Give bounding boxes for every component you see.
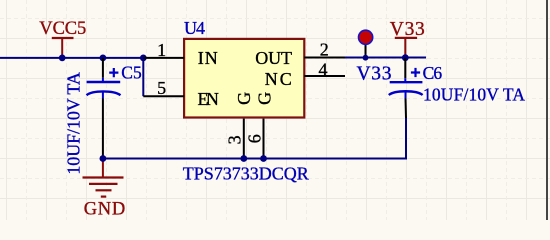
- node junction pin6/bus: [260, 155, 267, 162]
- pin 1: [143, 57, 184, 59]
- svg-text:10UF/10V TA: 10UF/10V TA: [64, 72, 84, 175]
- svg-text:TPS73733DCQR: TPS73733DCQR: [183, 163, 309, 183]
- node junction VCC5/wire: [59, 55, 66, 62]
- svg-text:C6: C6: [423, 63, 443, 83]
- svg-text:C5: C5: [121, 63, 142, 83]
- svg-text:3: 3: [225, 135, 245, 144]
- svg-text:1: 1: [157, 40, 166, 60]
- node junction pin3/bus: [240, 155, 247, 162]
- svg-text:G: G: [255, 92, 275, 105]
- capacitor C5: [87, 58, 142, 159]
- svg-text:V33: V33: [390, 19, 425, 40]
- pin 2: [304, 57, 345, 59]
- wire net V33 horizontal: [345, 57, 426, 59]
- regulator IC U4 body: [184, 39, 304, 118]
- svg-text:IN: IN: [198, 48, 218, 68]
- svg-text:V33: V33: [357, 63, 392, 84]
- svg-text:GND: GND: [84, 200, 126, 220]
- svg-text:EN: EN: [198, 89, 219, 109]
- test point marker (red dot): [359, 30, 373, 56]
- node junction V33/C6/wire: [402, 54, 409, 61]
- node junction red dot/wire: [363, 55, 369, 61]
- svg-text:6: 6: [244, 134, 264, 143]
- svg-text:OUT: OUT: [255, 48, 292, 68]
- pin 3: [243, 119, 245, 159]
- svg-text:5: 5: [157, 78, 166, 98]
- pin 4: [304, 75, 345, 77]
- svg-text:G: G: [234, 92, 254, 105]
- node junction C5/wire: [100, 55, 107, 62]
- pin 5: [143, 95, 184, 97]
- svg-text:VCC5: VCC5: [39, 19, 86, 39]
- pin 6: [263, 119, 265, 159]
- wire net VCC5 horizontal: [0, 57, 143, 59]
- node junction GND/bus: [100, 155, 107, 162]
- ground GND: [83, 159, 126, 220]
- svg-text:4: 4: [319, 59, 328, 79]
- power port VCC5: [39, 19, 86, 58]
- svg-text:U4: U4: [184, 18, 205, 38]
- svg-text:10UF/10V TA: 10UF/10V TA: [423, 85, 525, 105]
- svg-text:2: 2: [320, 40, 329, 60]
- capacitor C6: [389, 58, 443, 118]
- node junction pin1/wire: [140, 55, 147, 62]
- power port V33: [390, 19, 425, 58]
- wire vertical to EN: [142, 58, 144, 96]
- wire bottom ground bus: [103, 118, 406, 159]
